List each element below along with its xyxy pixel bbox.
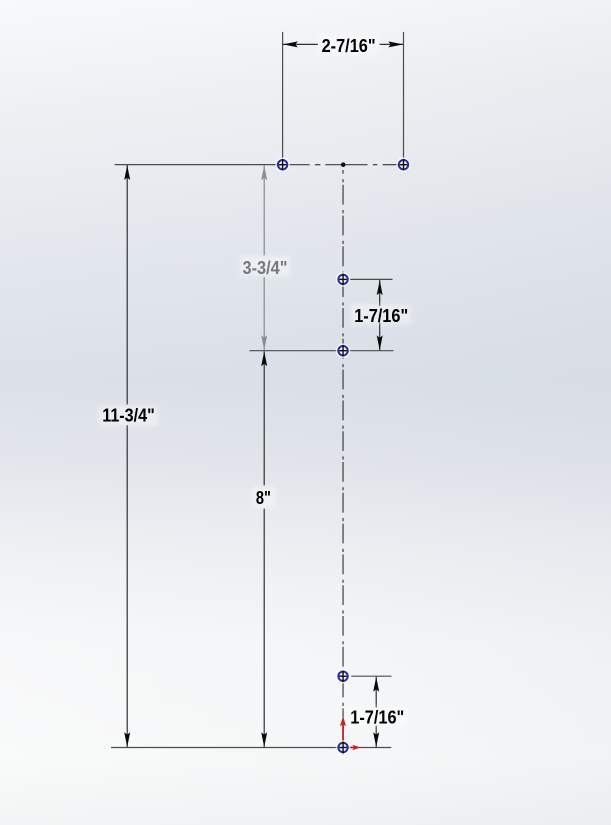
wire: dimension line 1-7/16 middle lower segment [379,323,381,351]
arrow: 1-7/16 bottom up [373,677,379,692]
arrow: 2-7/16 left [283,41,298,47]
wire: dimension line 1-7/16 bottom upper segment [375,677,377,708]
wire: extension line right of dimension 2-7/16 [403,32,405,159]
arrow: 11-3/4 down [124,732,130,747]
hole symbol row 3 [337,344,350,357]
wire: vertical dash-dot centerline [342,170,344,755]
arrow: 8 up [261,351,267,366]
wire: dimension line 8 lower segment [263,509,265,748]
hole symbol row 2 [337,273,350,286]
node: black center dot [341,162,346,167]
wire: gray dimension line 3-3/4 upper segment [263,165,265,255]
svg-text:8": 8" [256,487,271,508]
hole symbol top-right [397,158,410,171]
wire: gray dimension line 3-3/4 lower segment [263,277,265,350]
arrow: gray 3-3/4 down [261,335,267,350]
wire: extension line at hole row 4 [351,675,391,677]
wire: dimension line 8 upper segment [263,351,265,485]
svg-text:1-7/16": 1-7/16" [350,707,404,728]
wire: extension line at hole row 3 [250,350,394,352]
label: dimension text 11-3/4" [99,406,158,426]
wire: bottom extension line [111,747,391,749]
wire: extension line at hole row 2 [350,278,393,280]
wire: horizontal dash-dot centerline between top holes [289,164,399,166]
svg-text:1-7/16": 1-7/16" [354,305,408,326]
label: dimension text 1-7/16" middle [351,305,411,325]
arrow: 1-7/16 bottom down [373,732,379,747]
svg-text:11-3/4": 11-3/4" [102,405,155,426]
label: dimension text 1-7/16" bottom [347,707,407,727]
arrow: 8 down [261,732,267,747]
wire: dimension line 1-7/16 middle upper segment [379,280,381,306]
wire: dimension line 1-7/16 bottom lower segment [375,726,377,748]
arrow: 11-3/4 up [124,165,130,180]
origin axis: red right arrow [344,745,361,751]
origin axis: red up arrow [340,716,346,747]
wire: top extension line (11-3/4) at first hole row [115,164,278,166]
wire: dimension line 11-3/4 lower segment [126,425,128,747]
label: dimension text 3-3/4" (gray) [240,257,290,277]
arrow: 1-7/16 middle down [377,335,383,350]
label: dimension text 8" [252,487,275,508]
arrow: gray 3-3/4 up [261,165,267,180]
hole symbol top-left [276,158,289,171]
arrow: 1-7/16 middle up [377,280,383,295]
wire: dimension line 2-7/16 left segment [283,43,318,45]
hole symbol row 4 [337,670,350,683]
svg-text:2-7/16": 2-7/16" [322,35,376,56]
wire: dimension line 11-3/4 upper segment [126,165,128,405]
svg-text:3-3/4": 3-3/4" [243,257,288,278]
wire: dimension line 2-7/16 right segment [380,43,404,45]
wire: extension line left of dimension 2-7/16 [282,32,284,159]
arrow: 2-7/16 right [388,41,403,47]
hole symbol origin [337,741,350,754]
label: dimension text 2-7/16" [319,35,379,55]
